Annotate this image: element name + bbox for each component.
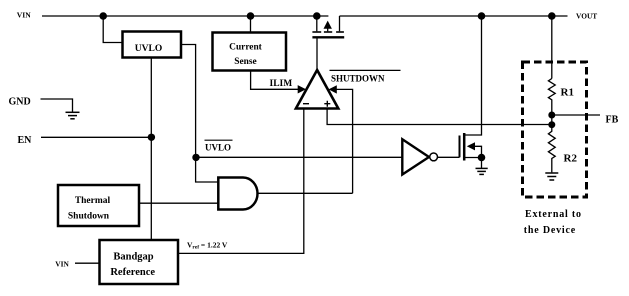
svg-text:FB: FB: [606, 115, 619, 126]
svg-text:R2: R2: [564, 153, 578, 165]
svg-text:Sense: Sense: [234, 57, 256, 67]
svg-text:Vref = 1.22 V: Vref = 1.22 V: [187, 240, 228, 250]
svg-text:R1: R1: [561, 86, 574, 98]
svg-text:EN: EN: [18, 135, 33, 146]
svg-text:ILIM: ILIM: [270, 79, 293, 89]
svg-text:Reference: Reference: [110, 267, 155, 278]
svg-text:the Device: the Device: [524, 225, 576, 236]
svg-text:UVLO: UVLO: [205, 143, 231, 153]
svg-text:GND: GND: [9, 97, 31, 108]
svg-text:VOUT: VOUT: [576, 12, 597, 21]
svg-text:VIN: VIN: [17, 11, 31, 20]
svg-text:Thermal: Thermal: [75, 196, 111, 206]
svg-text:External to: External to: [525, 209, 582, 220]
svg-text:VIN: VIN: [55, 259, 69, 268]
svg-text:Bandgap: Bandgap: [113, 252, 153, 263]
svg-text:Shutdown: Shutdown: [68, 211, 110, 221]
svg-text:SHUTDOWN: SHUTDOWN: [331, 74, 385, 84]
svg-text:Current: Current: [229, 42, 263, 52]
svg-text:UVLO: UVLO: [135, 44, 162, 54]
